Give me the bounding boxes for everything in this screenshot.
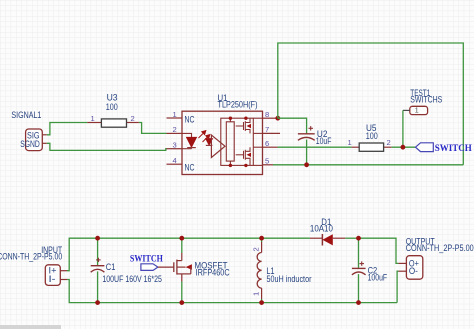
wire U2 bottom to pin5 rail — [306, 140, 308, 165]
svg-text:10uF: 10uF — [316, 136, 332, 146]
wire U5 to switch node — [392, 146, 416, 148]
svg-text:100UF 160V 16*25: 100UF 160V 16*25 — [102, 274, 162, 284]
svg-text:8: 8 — [265, 110, 269, 119]
header TEST1 — [403, 88, 443, 115]
pin 5 — [263, 164, 274, 166]
resistor U3 — [87, 92, 138, 127]
junction C1 bottom — [95, 300, 100, 305]
svg-text:2: 2 — [131, 114, 135, 123]
svg-text:2: 2 — [173, 125, 177, 134]
svg-text:SGND: SGND — [20, 139, 40, 149]
svg-text:SWITCH: SWITCH — [435, 143, 473, 154]
svg-text:CONN-TH_2P-P5.00: CONN-TH_2P-P5.00 — [406, 243, 474, 253]
junction pin8 node — [275, 116, 280, 121]
capacitor U2 — [298, 126, 332, 146]
wire U3 pin2 to U1 pin2 — [139, 123, 167, 134]
wire to O- — [397, 271, 398, 302]
lower transistor — [236, 147, 251, 165]
wire gate — [158, 266, 174, 268]
junction C2 top — [356, 236, 361, 241]
svg-text:2: 2 — [252, 247, 261, 251]
pin 1 — [167, 117, 183, 119]
svg-text:O-: O- — [409, 266, 418, 276]
svg-text:I-: I- — [49, 274, 56, 284]
svg-text:2: 2 — [387, 138, 391, 147]
inductor L1 — [252, 238, 312, 302]
svg-text:4: 4 — [173, 156, 177, 165]
svg-text:100uF: 100uF — [368, 272, 388, 282]
svg-text:50uH inductor: 50uH inductor — [267, 274, 312, 284]
svg-text:10A10: 10A10 — [310, 224, 333, 234]
junction U2 bottom — [304, 162, 309, 167]
junction L1 top — [259, 236, 264, 241]
capacitor C2 — [352, 238, 388, 302]
pin 3 — [167, 148, 183, 150]
wire input left rail top — [67, 238, 98, 271]
junction mosfet source — [179, 300, 184, 305]
diode D1 — [310, 217, 345, 245]
transistor MOSFET IRFP460C — [174, 253, 230, 282]
svg-text:U3: U3 — [107, 92, 118, 102]
net flag SWITCH (lower) — [130, 254, 163, 271]
svg-text:1: 1 — [91, 114, 95, 123]
inner block of U1 — [221, 117, 263, 168]
wire top rail after D1 — [345, 237, 358, 239]
svg-text:5: 5 — [265, 157, 269, 166]
junction switch node — [401, 145, 406, 150]
svg-text:6: 6 — [265, 139, 269, 148]
pin 7 — [263, 132, 281, 134]
connector INPUT — [0, 245, 67, 285]
wire to O+ — [359, 238, 399, 263]
svg-text:1: 1 — [415, 108, 419, 115]
wire pin8 to U2 — [278, 118, 307, 133]
wire bottom rail — [98, 302, 398, 304]
connector SIGNAL1 — [11, 110, 46, 151]
pin 6 — [263, 146, 278, 148]
svg-text:100: 100 — [106, 102, 118, 112]
svg-text:NC: NC — [185, 115, 195, 125]
wire pin5 rail — [273, 164, 463, 166]
svg-text:1: 1 — [173, 110, 177, 119]
svg-text:NC: NC — [185, 162, 195, 172]
wire pin6 to U5 — [278, 146, 352, 148]
wire TEST1 down to node — [402, 110, 404, 147]
svg-text:TLP250H(F): TLP250H(F) — [218, 100, 258, 110]
resistor U5 — [348, 123, 392, 151]
pin 2 — [167, 132, 183, 134]
light arrows inside U1 — [199, 131, 210, 142]
svg-text:100: 100 — [366, 131, 378, 141]
wire drain — [181, 238, 183, 253]
svg-text:CONN-TH_2P-P5.00: CONN-TH_2P-P5.00 — [0, 251, 62, 261]
wire top rail — [98, 237, 310, 239]
wire pin8 top loop to right side — [278, 43, 464, 165]
svg-text:7: 7 — [265, 125, 269, 134]
amp triangle inside U1 — [211, 135, 225, 158]
op-amp U1 optocoupler TLP250H — [167, 93, 281, 175]
junction mosfet drain — [179, 236, 184, 241]
pin 4 — [167, 163, 183, 165]
wire source — [181, 282, 183, 303]
svg-text:1: 1 — [348, 138, 352, 147]
LED inside U1 — [182, 133, 196, 148]
svg-text:C1: C1 — [106, 262, 116, 272]
photodiode inside U1 — [206, 139, 213, 146]
capacitor C1 — [91, 238, 162, 302]
svg-text:SWITCH: SWITCH — [130, 254, 163, 265]
svg-text:SIGNAL1: SIGNAL1 — [11, 110, 41, 120]
junction L1 bottom — [259, 300, 264, 305]
junction C1 top — [95, 236, 100, 241]
svg-text:1: 1 — [252, 292, 261, 296]
pin 8 — [263, 117, 278, 119]
scrollbar fragment bottom left — [0, 325, 61, 329]
connector OUTPUT — [398, 237, 473, 280]
svg-text:SWITCHS: SWITCHS — [410, 95, 442, 105]
wire input left rail bottom — [67, 280, 98, 303]
net flag SWITCH (upper) — [416, 143, 473, 154]
upper transistor — [236, 118, 251, 133]
wire SGND to U1 pin3 — [47, 143, 167, 150]
svg-text:IRFP460C: IRFP460C — [196, 268, 231, 278]
wire SIG to U3 — [47, 123, 88, 135]
junction C2 bottom — [356, 300, 361, 305]
svg-text:3: 3 — [173, 141, 177, 150]
